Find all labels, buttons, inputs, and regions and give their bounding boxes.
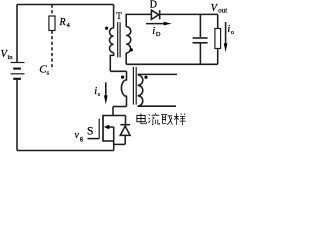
char dian — [137, 113, 146, 124]
svg-text:v: v — [75, 130, 80, 141]
mosfet S drain line — [103, 115, 126, 117]
svg-text:out: out — [218, 7, 227, 15]
label Cs — [39, 63, 49, 76]
capacitor output plates — [193, 38, 208, 43]
diode clamp bottom lead — [114, 135, 126, 144]
wire CT stub to drain — [112, 107, 114, 116]
label vg — [75, 130, 84, 142]
svg-text:D: D — [150, 0, 157, 10]
wire primary top — [113, 5, 115, 28]
diode clamp top lead — [125, 116, 127, 125]
transformer T core — [118, 22, 120, 57]
svg-text:S: S — [87, 126, 93, 138]
mosfet gate stub — [88, 138, 100, 140]
transformer T secondary winding — [126, 27, 131, 53]
wire diode to output — [160, 13, 218, 15]
wire dashed snubber lower — [51, 31, 53, 71]
resistor R4 — [49, 16, 55, 31]
svg-text:in: in — [8, 54, 14, 61]
char liu — [148, 113, 159, 125]
svg-text:o: o — [231, 30, 234, 36]
dot CT primary — [121, 76, 124, 79]
label io — [227, 24, 234, 36]
wire bottom rail — [17, 150, 114, 152]
mosfet channel bar — [102, 115, 104, 142]
dot CT secondary — [144, 76, 147, 79]
svg-text:R: R — [59, 17, 66, 28]
dot primary T — [105, 27, 108, 30]
label S — [87, 126, 93, 138]
label iD — [152, 26, 161, 38]
svg-text:s: s — [98, 92, 101, 98]
CT secondary winding — [138, 75, 143, 106]
capacitor output bottom lead — [199, 44, 201, 65]
mosfet body arrow — [104, 125, 114, 130]
label D — [150, 0, 157, 10]
mosfet gate bar — [98, 119, 100, 139]
capacitor output top lead — [199, 14, 201, 37]
wire dashed snubber upper — [51, 5, 53, 17]
diode clamp — [120, 125, 130, 136]
arrow is — [104, 82, 108, 104]
wire CT secondary bottom lead — [138, 105, 176, 107]
svg-text:s: s — [47, 69, 50, 76]
char qu — [161, 114, 172, 124]
load resistor leads — [217, 14, 219, 64]
svg-text:T: T — [116, 11, 122, 21]
wire output bottom rail — [126, 53, 218, 64]
wire primary bottom jog — [110, 53, 113, 72]
wire source to rail — [113, 127, 115, 151]
text label dianliu-quyang (current sampling) — [137, 113, 186, 125]
CT core — [133, 67, 136, 105]
label Vin — [1, 49, 14, 61]
arrow io — [224, 22, 228, 52]
svg-text:g: g — [80, 135, 84, 142]
wire top rail — [17, 4, 114, 6]
wire CT bottom stub — [113, 106, 127, 108]
dot secondary T — [130, 48, 133, 51]
mosfet source line — [103, 140, 114, 142]
label is — [94, 86, 101, 98]
load resistor — [215, 29, 221, 49]
label T — [116, 11, 122, 21]
battery Vin — [11, 63, 25, 79]
label Vout — [211, 3, 227, 15]
arrow iD — [146, 22, 172, 26]
svg-text:4: 4 — [67, 22, 71, 29]
wire CT top stub — [110, 70, 126, 72]
transformer T primary winding — [109, 28, 113, 53]
wire secondary top to diode — [126, 14, 151, 26]
char yang — [174, 113, 186, 125]
wire left rail lower — [16, 79, 18, 151]
diode D — [151, 10, 159, 19]
wire left rail upper — [16, 5, 18, 63]
wire CT secondary top lead — [138, 73, 177, 75]
label R4 — [59, 17, 71, 29]
svg-text:D: D — [156, 31, 161, 38]
CT primary winding — [121, 71, 126, 106]
